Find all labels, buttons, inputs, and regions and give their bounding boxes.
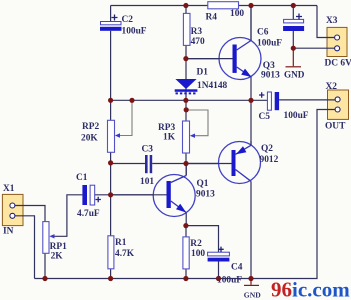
wiper wire RP3 (186, 110, 208, 136)
svg-text:C6: C6 (257, 28, 269, 38)
wire node column to C1 row (110, 164, 112, 195)
capacitor C5 (267, 92, 279, 110)
capacitor C6 (283, 19, 304, 31)
wiper arrow RP2 (115, 133, 120, 137)
wire Q1 base (111, 194, 167, 196)
svg-text:C4: C4 (231, 263, 243, 273)
wire C2 bottom column (110, 31, 112, 101)
junction R1 bottom rail (108, 276, 113, 281)
wire rail to X3 pin1 (317, 6, 337, 38)
svg-text:IN: IN (3, 227, 14, 237)
junction RP3 wiper tap (184, 107, 189, 112)
transistor Q1 (111, 164, 196, 217)
junction Q3 emitter Q2 emitter output row (248, 98, 253, 103)
ground GND bottom (244, 279, 259, 286)
svg-text:100: 100 (191, 249, 205, 259)
svg-text:101: 101 (140, 177, 154, 187)
resistor R1 (108, 236, 114, 269)
junction RP1 bottom rail (42, 276, 47, 281)
junction RP2 wiper tap (129, 98, 134, 103)
wire bottom rail (35, 110, 338, 279)
potentiometer RP1 body (43, 222, 49, 254)
plus mark C5 (259, 92, 264, 97)
svg-text:9013: 9013 (196, 190, 215, 200)
junction R3 D1 Q3 base node (183, 56, 188, 61)
wiper arrow RP3 (190, 134, 195, 138)
wire RP1 bottom (44, 253, 46, 278)
junction C1 R1 Q1 base node (108, 192, 113, 197)
svg-text:1N4148: 1N4148 (197, 81, 228, 91)
svg-text:9013: 9013 (261, 71, 280, 81)
wire Q2 collector down (250, 181, 252, 278)
transistor Q2 (186, 141, 261, 184)
junction Q3 collector rail (248, 3, 253, 8)
wire C6 bottom (292, 31, 294, 48)
svg-text:RP2: RP2 (82, 122, 99, 132)
resistor R2 (183, 237, 189, 269)
svg-text:GND: GND (244, 291, 261, 300)
svg-text:Q3: Q3 (263, 61, 275, 71)
svg-text:R2: R2 (190, 239, 202, 249)
svg-text:RP3: RP3 (158, 123, 175, 133)
svg-text:100: 100 (230, 9, 244, 19)
svg-text:RP1: RP1 (50, 242, 67, 252)
junction Q2 collector GND rail (248, 276, 253, 281)
potentiometer RP3 body (183, 121, 190, 153)
connector X1 box (2, 194, 23, 225)
wire C5 to X2 pin1 (279, 99, 338, 101)
junction C4 bottom rail (216, 276, 221, 281)
junction R3 top rail (183, 3, 188, 8)
junction C6 X3 pin2 (291, 46, 296, 51)
junction RP2 bottom C3 left (108, 160, 113, 165)
wire C1 right (95, 194, 111, 196)
svg-text:DC 6V: DC 6V (325, 58, 351, 68)
connector X2 box (328, 90, 349, 119)
wire R3 column (185, 6, 187, 59)
svg-text:470: 470 (191, 37, 205, 47)
svg-text:1K: 1K (163, 133, 176, 143)
wire Q3 base row (186, 58, 233, 60)
svg-text:C3: C3 (142, 145, 154, 155)
svg-text:X1: X1 (3, 184, 15, 194)
plus mark C1 (96, 197, 101, 202)
svg-text:Q1: Q1 (197, 179, 209, 189)
svg-text:C2: C2 (122, 15, 134, 25)
plus mark C2 (112, 15, 118, 21)
wiper arrow RP1 (49, 234, 54, 238)
wire C4 branch (186, 226, 219, 253)
X3 pin 2 (335, 46, 340, 51)
wire output row y100 (111, 99, 268, 101)
svg-text:100uF: 100uF (217, 275, 242, 285)
wire C6 top (292, 6, 294, 20)
X1 pin 2 (10, 213, 15, 218)
wire R2 column (185, 226, 187, 279)
wire X1 pin2 down (12, 216, 34, 279)
wiper wire RP2 (117, 100, 132, 135)
svg-text:4.7K: 4.7K (115, 249, 135, 259)
svg-text:9012: 9012 (260, 155, 279, 165)
svg-text:C5: C5 (259, 112, 271, 122)
potentiometer RP2 body (108, 120, 115, 152)
wire C1 left to RP1 wiper (51, 195, 82, 237)
wire Q3 collector (250, 6, 252, 41)
svg-text:100uF: 100uF (257, 39, 282, 49)
svg-text:4.7uF: 4.7uF (77, 209, 100, 219)
plus mark C6 (296, 14, 302, 20)
wire Q1 collector to node (185, 164, 187, 176)
wire RP3 column (185, 100, 187, 163)
svg-text:20K: 20K (81, 134, 98, 144)
junction R2 bottom rail (183, 276, 188, 281)
X2 pin 1 (335, 97, 340, 102)
X1 pin 1 (10, 203, 15, 208)
svg-text:R3: R3 (191, 27, 203, 37)
svg-text:2K: 2K (51, 251, 64, 261)
capacitor C4 (208, 252, 230, 261)
ground GND top (286, 48, 302, 67)
wire C6 to X3 pin2 (293, 47, 337, 49)
wire R1 column (110, 195, 112, 279)
X2 pin 2 (335, 107, 340, 112)
plus mark C4 (218, 247, 223, 252)
wire Q1 emitter down (185, 213, 187, 226)
junction C2 output row (108, 98, 113, 103)
capacitor C3 (145, 155, 152, 173)
svg-text:100uF: 100uF (284, 111, 309, 121)
svg-text:X3: X3 (326, 16, 338, 26)
wire RP2 column (110, 100, 112, 163)
wire D1 column (185, 59, 187, 101)
wire C3 left (111, 163, 145, 165)
svg-text:OUT: OUT (325, 122, 346, 132)
svg-text:GND: GND (284, 70, 305, 80)
svg-text:C1: C1 (76, 173, 88, 183)
svg-text:Q2: Q2 (261, 144, 273, 154)
junction C3 RP3 Q1 collector Q2 base node (183, 161, 188, 166)
diode D1 (175, 79, 198, 93)
wire top rail (111, 5, 317, 7)
junction D1 cathode output row (183, 98, 188, 103)
junction C6 top rail (291, 3, 296, 8)
svg-text:X2: X2 (326, 82, 338, 92)
wire C2 top (110, 6, 112, 22)
connector X3 box (327, 27, 347, 56)
capacitor C2 (100, 22, 122, 31)
wire C4 bottom (218, 262, 220, 279)
transistor Q3 (186, 6, 261, 80)
resistor R4 (208, 2, 239, 9)
capacitor C1 (82, 185, 94, 205)
svg-text:D1: D1 (197, 68, 209, 78)
resistor R3 (183, 13, 190, 45)
wire C3 right (152, 163, 186, 165)
wire Q2 base (186, 163, 232, 165)
X3 pin 1 (335, 35, 340, 40)
svg-text:100uF: 100uF (122, 27, 147, 37)
wire Q3 emitter to Q2 emitter column (250, 77, 252, 146)
svg-text:R1: R1 (115, 238, 127, 248)
svg-text:R4: R4 (206, 13, 218, 23)
junction Q1 emitter R2 C4 node (183, 223, 188, 228)
wire X1 pin1 to RP1 top (12, 206, 45, 222)
svg-text:96ic.com: 96ic.com (271, 278, 350, 300)
